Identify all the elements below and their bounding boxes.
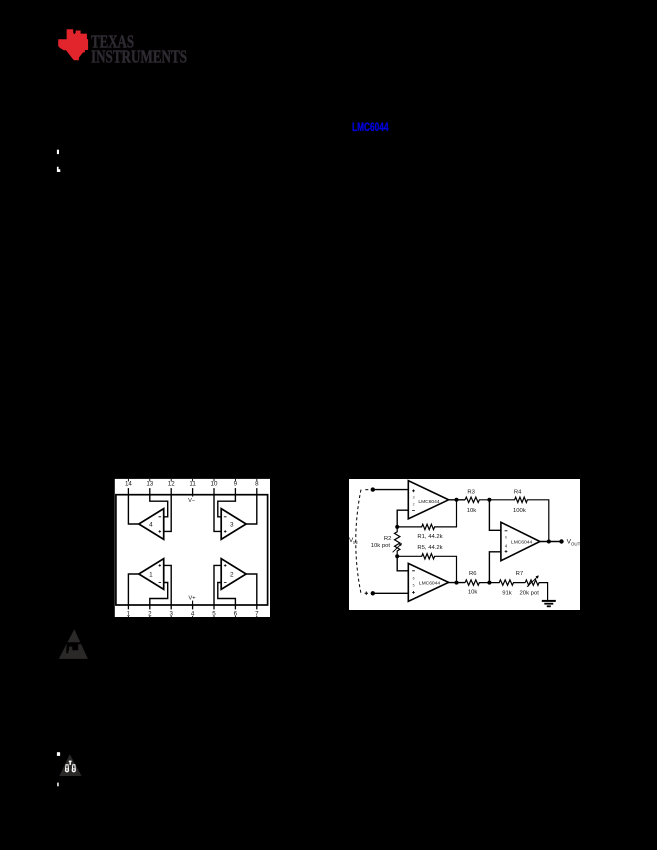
svg-text:13: 13: [146, 480, 153, 487]
svg-text:R1, 44.2k: R1, 44.2k: [417, 534, 442, 540]
svg-text:OUT: OUT: [571, 541, 581, 546]
svg-text:R4: R4: [514, 489, 522, 495]
white text fragment mark 4: [57, 783, 59, 787]
VIN label: [349, 537, 358, 545]
TI logo red Texas map: [58, 29, 88, 60]
op-amp 4 inverting input wire to pin 13: [150, 495, 168, 517]
op-amp U2 (bottom LMC6044): [408, 563, 448, 601]
net label V-: [188, 495, 195, 504]
svg-text:R3: R3: [467, 489, 475, 495]
U1 output wire and junction dot: [449, 498, 466, 502]
package outline: [116, 495, 268, 605]
resistor R6 10k: [465, 571, 489, 596]
blue hyperlink LMC6044: [352, 120, 389, 134]
pin 8 tick and stub: [256, 479, 258, 496]
bottom pin stubs 1-7: [128, 605, 256, 609]
bottom pin number labels 1-7: [127, 610, 259, 617]
svg-text:8: 8: [255, 480, 259, 487]
svg-text:IN: IN: [353, 540, 357, 545]
svg-text:10k: 10k: [467, 508, 477, 514]
svg-text:4: 4: [149, 521, 153, 528]
op-amp 3 inverting input wire to pin 9: [218, 495, 236, 517]
svg-text:10k: 10k: [468, 590, 478, 596]
svg-text:91k: 91k: [502, 590, 512, 596]
svg-text:100k: 100k: [513, 508, 526, 514]
op-amp 2 triangle: [221, 559, 246, 590]
svg-text:LMC6044: LMC6044: [418, 499, 439, 505]
op-amp 4 output wire to pin 14: [128, 495, 138, 524]
op-amp 4 triangle: [139, 509, 164, 540]
pin 14 tick and stub: [127, 479, 129, 496]
U3 output wire with junction dot: [540, 540, 562, 544]
svg-text:LMC6044: LMC6044: [511, 540, 532, 546]
svg-text:R2: R2: [384, 536, 392, 542]
resistor 91k: [489, 580, 525, 596]
svg-text:5: 5: [413, 583, 415, 587]
pin 12 tick and stub: [170, 479, 172, 496]
resistor R1 44.2k: [397, 500, 456, 540]
node A junction dot: [395, 525, 399, 529]
pin 11 tick and stub (V-): [192, 479, 194, 496]
svg-text:10: 10: [211, 480, 218, 487]
op-amp 2 output wire to pin 7: [246, 574, 257, 605]
op-amp 2 non-inverting input wire to pin 5: [214, 565, 221, 605]
figure background panel: [349, 479, 580, 610]
node C junction dot: [487, 498, 491, 502]
bottom pin ticks: [128, 616, 256, 617]
TI wordmark INSTRUMENTS: [91, 46, 187, 66]
svg-text:2: 2: [413, 503, 415, 507]
wire U1 inverting input to node A: [397, 510, 408, 527]
svg-text:LMC6044: LMC6044: [419, 580, 440, 586]
svg-text:2: 2: [230, 571, 234, 578]
svg-text:3: 3: [413, 496, 415, 500]
op-amp 2 inverting input wire to pin 6: [218, 583, 236, 606]
resistor R4 100k: [489, 489, 548, 541]
wire node B to U2 inverting input: [397, 556, 408, 571]
svg-text:V+: V+: [189, 596, 196, 602]
potentiometer R7 20k: [516, 571, 548, 601]
ESD caution triangle icon: [59, 629, 88, 659]
TI wordmark TEXAS: [91, 31, 134, 51]
VOUT terminal: [559, 539, 580, 547]
white text fragment mark 2: [57, 167, 60, 172]
op-amp 1 inverting input wire to pin 2: [150, 583, 168, 606]
svg-text:12: 12: [168, 480, 175, 487]
op-amp 3 output wire to pin 8: [246, 495, 257, 524]
scales-of-justice triangle icon: [59, 754, 81, 776]
VIN dashed brace: [356, 490, 361, 594]
svg-text:V−: V−: [188, 498, 195, 504]
resistor R5 44.2k: [397, 545, 456, 583]
svg-text:R7: R7: [516, 571, 524, 577]
ground: [542, 601, 556, 606]
svg-text:14: 14: [125, 480, 132, 487]
U2 output wire and junction dot: [449, 581, 466, 585]
top pin number labels 14-8: [125, 480, 259, 487]
node D junction dot: [487, 581, 491, 585]
op-amp 1 output wire to pin 1: [128, 574, 138, 605]
node B junction dot: [395, 554, 399, 558]
wire minus terminal to op-amp U1: [373, 489, 409, 491]
svg-text:11: 11: [189, 480, 196, 487]
svg-text:R6: R6: [469, 571, 477, 577]
wire node C to U3 inverting input: [489, 500, 501, 531]
white text fragment mark 3: [57, 752, 60, 756]
pin 13 tick and stub: [149, 479, 151, 496]
minus input terminal: [365, 487, 375, 491]
svg-text:INSTRUMENTS: INSTRUMENTS: [91, 46, 187, 66]
svg-text:9: 9: [234, 480, 238, 487]
net label V+: [189, 596, 196, 605]
op-amp 4 non-inverting input wire to pin 12: [164, 495, 172, 532]
pin 10 tick and stub: [213, 479, 215, 496]
op-amp 1 triangle: [139, 559, 164, 590]
svg-text:10k pot: 10k pot: [371, 543, 391, 549]
svg-text:6: 6: [505, 536, 507, 540]
op-amp 3 triangle: [221, 509, 246, 540]
wire node D to U3 non-inverting input: [489, 552, 501, 583]
svg-text:20k pot: 20k pot: [520, 590, 540, 596]
wire plus terminal to op-amp U2: [373, 592, 409, 594]
resistor R3 10k: [465, 489, 489, 514]
op-amp U1 (top LMC6044): [408, 481, 448, 519]
pin 9 tick and stub: [234, 479, 236, 496]
figure background panel: [115, 479, 270, 617]
op-amp 3 non-inverting input wire to pin 10: [214, 495, 221, 532]
svg-text:6: 6: [413, 576, 415, 580]
svg-text:LMC6044: LMC6044: [352, 120, 389, 134]
svg-text:1: 1: [149, 571, 153, 578]
svg-text:R5, 44.2k: R5, 44.2k: [417, 545, 442, 551]
op-amp U3 (output LMC6044): [501, 522, 540, 560]
plus input terminal: [365, 591, 375, 595]
op-amp 1 non-inverting input wire to pin 3: [164, 565, 172, 605]
white text fragment mark 1: [57, 150, 59, 154]
potentiometer R2 10k: [371, 527, 402, 556]
svg-text:3: 3: [230, 521, 234, 528]
